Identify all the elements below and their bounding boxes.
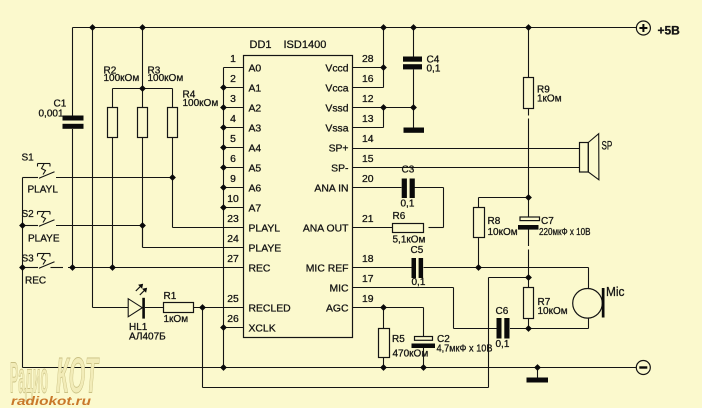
svg-text:SP+: SP+ bbox=[329, 144, 349, 155]
node R7-C7 junction bbox=[525, 274, 532, 281]
wire S3 REC row to pin 27 bbox=[23, 267, 39, 269]
svg-text:1кОм: 1кОм bbox=[164, 314, 189, 325]
svg-text:RECLED: RECLED bbox=[249, 304, 291, 315]
svg-text:23: 23 bbox=[227, 214, 239, 225]
svg-text:25: 25 bbox=[227, 294, 239, 305]
wire address bus bbox=[223, 68, 225, 368]
svg-text:4,7мкФ x 10В: 4,7мкФ x 10В bbox=[437, 343, 493, 354]
capacitor C7 polarized bbox=[520, 217, 540, 221]
svg-text:S2: S2 bbox=[22, 209, 35, 220]
wire chassis ground stub bbox=[537, 368, 539, 379]
node R7-C6 junction bbox=[525, 325, 532, 332]
wire C6 row bbox=[454, 328, 497, 330]
svg-text:0,1: 0,1 bbox=[496, 339, 510, 350]
svg-text:9: 9 bbox=[230, 174, 236, 185]
svg-text:Mic: Mic bbox=[606, 284, 625, 299]
wire C2 column bbox=[423, 308, 425, 337]
svg-text:0,1: 0,1 bbox=[412, 277, 426, 288]
resistor R4 bbox=[168, 108, 178, 138]
wire +5V top rail bbox=[73, 27, 637, 29]
svg-text:C3: C3 bbox=[402, 164, 415, 175]
ground bar analog bbox=[404, 128, 425, 133]
microphone Mic bbox=[573, 289, 603, 319]
capacitor C2 polarized bbox=[415, 337, 433, 341]
svg-text:26: 26 bbox=[227, 314, 239, 325]
svg-text:14: 14 bbox=[362, 134, 374, 145]
wire LED branch vertical bbox=[92, 28, 94, 308]
svg-text:27: 27 bbox=[227, 254, 239, 265]
svg-text:R5: R5 bbox=[392, 334, 405, 345]
svg-text:3: 3 bbox=[230, 94, 236, 105]
resistor R6 bbox=[393, 224, 424, 233]
wire C3 to R6 link bbox=[443, 188, 445, 228]
node MIC REF R8 junction bbox=[475, 264, 482, 271]
wire R8 bottom stub bbox=[478, 238, 480, 268]
svg-text:Vccd: Vccd bbox=[325, 64, 348, 75]
svg-text:0,1: 0,1 bbox=[401, 199, 415, 210]
svg-text:6: 6 bbox=[230, 154, 236, 165]
wire SP- row pin 15 bbox=[353, 167, 580, 169]
wire mic top drop bbox=[588, 268, 590, 289]
wire RECLED row bbox=[93, 307, 129, 309]
svg-text:ISD1400: ISD1400 bbox=[284, 39, 327, 51]
svg-text:SP: SP bbox=[602, 140, 613, 152]
svg-text:0,1: 0,1 bbox=[427, 64, 441, 75]
svg-text:R6: R6 bbox=[393, 211, 406, 222]
svg-text:PLAYL: PLAYL bbox=[249, 224, 281, 235]
svg-text:21: 21 bbox=[362, 214, 374, 225]
node REC row junctions bbox=[19, 264, 26, 271]
wire pull-up bridge bbox=[113, 88, 173, 90]
wire bottom link bbox=[203, 387, 489, 389]
svg-text:1кОм: 1кОм bbox=[537, 94, 562, 105]
svg-text:PLAYE: PLAYE bbox=[28, 234, 60, 245]
svg-text:18: 18 bbox=[362, 254, 374, 265]
svg-text:Vssd: Vssd bbox=[325, 104, 348, 115]
svg-text:C6: C6 bbox=[496, 306, 509, 317]
svg-text:S3: S3 bbox=[22, 254, 35, 265]
wire left switch-common rail bbox=[22, 178, 24, 368]
wire bus rungs pins 1-10 bbox=[224, 67, 244, 69]
terminal +5V bbox=[636, 21, 650, 35]
wire MIC row pin 17 bbox=[353, 287, 454, 289]
svg-text:C5: C5 bbox=[411, 245, 424, 256]
svg-text:220мкФ x 10В: 220мкФ x 10В bbox=[539, 227, 591, 238]
wire R7 bottom stub bbox=[528, 319, 530, 329]
wire S2 PLAYE row bbox=[23, 225, 39, 227]
svg-text:20: 20 bbox=[362, 174, 374, 185]
wire R5 stubs bbox=[383, 308, 385, 329]
svg-text:1: 1 bbox=[230, 54, 236, 65]
resistor R7 bbox=[524, 288, 534, 319]
wire ANA OUT row pin 21 bbox=[353, 227, 393, 229]
speaker SP bbox=[580, 143, 589, 173]
svg-text:ANA IN: ANA IN bbox=[314, 184, 348, 195]
svg-text:radiokot.ru: radiokot.ru bbox=[11, 394, 92, 408]
wire PLAYE to pin 24 bbox=[143, 247, 244, 249]
resistor R2 bbox=[108, 108, 118, 138]
svg-text:S1: S1 bbox=[22, 153, 35, 164]
wire RECLED node to bottom link bbox=[202, 308, 204, 388]
wire S1 PLAYL row bbox=[23, 177, 39, 179]
node +5V rail junctions bbox=[89, 24, 96, 31]
svg-text:10: 10 bbox=[227, 194, 239, 205]
svg-text:R8: R8 bbox=[488, 216, 501, 227]
svg-text:24: 24 bbox=[227, 234, 239, 245]
svg-text:PLAYL: PLAYL bbox=[28, 185, 59, 196]
svg-text:REC: REC bbox=[249, 264, 271, 275]
capacitor C1 plates bbox=[63, 116, 84, 121]
node S2 row junctions bbox=[19, 222, 26, 229]
node ground rail junctions bbox=[380, 364, 387, 371]
svg-text:DD1: DD1 bbox=[250, 39, 272, 51]
node RECLED junction bbox=[199, 304, 206, 311]
svg-text:10кОм: 10кОм bbox=[488, 227, 518, 238]
svg-text:R1: R1 bbox=[164, 291, 177, 302]
wire R7 node branch bbox=[489, 277, 529, 279]
node AGC R5 junction bbox=[380, 304, 387, 311]
svg-text:A2: A2 bbox=[249, 104, 262, 115]
wire AGC row pin 19 bbox=[353, 307, 424, 309]
svg-text:A3: A3 bbox=[249, 124, 262, 135]
wire C4 column bbox=[413, 28, 415, 57]
svg-text:12: 12 bbox=[362, 94, 374, 105]
svg-text:15: 15 bbox=[362, 154, 374, 165]
wire R9 column bbox=[528, 28, 530, 78]
svg-text:ANA OUT: ANA OUT bbox=[303, 224, 349, 235]
resistor R3 bbox=[138, 108, 148, 138]
wire Vssa stub pin 13 bbox=[353, 127, 384, 129]
svg-text:2: 2 bbox=[230, 74, 236, 85]
capacitor C6 plates bbox=[497, 318, 502, 339]
wire Vcc riser bbox=[383, 28, 385, 88]
svg-text:PLAYE: PLAYE bbox=[249, 244, 282, 255]
svg-text:Vssa: Vssa bbox=[325, 124, 348, 135]
wire C1 branch vertical bbox=[72, 28, 74, 116]
svg-text:100кОм: 100кОм bbox=[148, 73, 184, 84]
wire XCLK stub pin 26 bbox=[224, 327, 244, 329]
svg-text:28: 28 bbox=[362, 54, 374, 65]
svg-text:AGC: AGC bbox=[326, 304, 349, 315]
svg-text:100кОм: 100кОм bbox=[183, 98, 219, 109]
resistor R5 bbox=[379, 329, 390, 358]
wire MIC REF row pin 18 bbox=[353, 267, 412, 269]
svg-text:17: 17 bbox=[362, 274, 374, 285]
node Vssd junctions bbox=[380, 104, 387, 111]
wire R3 pull-up riser and drop bbox=[142, 28, 144, 108]
svg-text:A6: A6 bbox=[249, 184, 262, 195]
svg-text:A0: A0 bbox=[249, 64, 262, 75]
svg-text:100кОм: 100кОм bbox=[104, 73, 140, 84]
resistor R8 bbox=[474, 208, 485, 238]
svg-text:5: 5 bbox=[230, 134, 236, 145]
capacitor C5 plates bbox=[412, 258, 417, 278]
svg-text:+5В: +5В bbox=[658, 23, 681, 37]
svg-text:4: 4 bbox=[230, 114, 236, 125]
ground bar bottom chassis bbox=[527, 378, 549, 383]
capacitor C3 plates bbox=[402, 179, 407, 199]
switch S3 bbox=[38, 253, 51, 255]
switch S1 bbox=[38, 163, 51, 165]
IC DD1 ISD1400 body bbox=[244, 56, 353, 338]
capacitor C4 plates bbox=[403, 57, 422, 62]
wire ANA IN row pin 20 bbox=[353, 187, 402, 189]
resistor R1 bbox=[164, 303, 194, 313]
svg-text:C7: C7 bbox=[541, 216, 554, 227]
svg-text:XCLK: XCLK bbox=[249, 324, 276, 335]
svg-text:SP-: SP- bbox=[331, 164, 348, 175]
wire R4 pull-up drop bbox=[172, 89, 174, 108]
svg-text:0,001: 0,001 bbox=[39, 108, 64, 119]
svg-text:АЛ407Б: АЛ407Б bbox=[129, 332, 166, 343]
wire Vccd stub pin 28 bbox=[353, 67, 384, 69]
svg-text:10кОм: 10кОм bbox=[538, 306, 568, 317]
svg-text:A5: A5 bbox=[249, 164, 262, 175]
wire mic bottom stub bbox=[588, 318, 590, 329]
svg-text:REC: REC bbox=[25, 276, 46, 287]
wire PLAYL to pin 23 bbox=[173, 227, 244, 229]
svg-text:19: 19 bbox=[362, 294, 374, 305]
node Vccd junction bbox=[380, 64, 387, 71]
wire Vcca stub pin 16 bbox=[353, 87, 384, 89]
svg-text:16: 16 bbox=[362, 74, 374, 85]
svg-text:A1: A1 bbox=[249, 84, 262, 95]
wire ground rail bbox=[23, 367, 637, 369]
wire Vssd stub pin 12 bbox=[353, 107, 384, 109]
node R9-R8-C7 junction bbox=[525, 194, 532, 201]
wire C7 column bbox=[528, 198, 530, 218]
svg-text:13: 13 bbox=[362, 114, 374, 125]
svg-text:MIC REF: MIC REF bbox=[306, 264, 349, 275]
svg-text:470кОм: 470кОм bbox=[393, 349, 429, 360]
node S1 row junction bbox=[169, 174, 176, 181]
svg-text:A7: A7 bbox=[249, 204, 262, 215]
terminal minus bbox=[636, 361, 650, 375]
node address bus junctions bbox=[220, 84, 227, 91]
wire R2 pull-up drop bbox=[112, 89, 114, 108]
LED HL1 bbox=[128, 299, 142, 317]
node pull-up bridge junction bbox=[139, 85, 146, 92]
svg-text:MIC: MIC bbox=[329, 284, 349, 295]
resistor R9 bbox=[524, 78, 534, 109]
wire SP+ row pin 14 bbox=[353, 148, 580, 150]
svg-text:Vcca: Vcca bbox=[325, 84, 348, 95]
switch S2 bbox=[38, 211, 51, 213]
svg-text:A4: A4 bbox=[249, 144, 262, 155]
wire R8 top link bbox=[479, 197, 529, 199]
